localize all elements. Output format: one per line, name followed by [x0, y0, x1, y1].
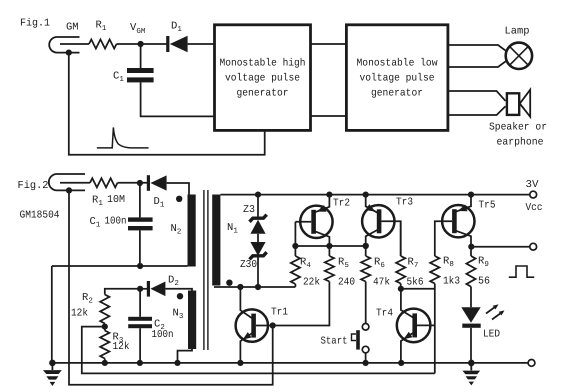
wire to speaker lower: [448, 106, 506, 115]
GM tube fig2: [49, 174, 90, 193]
label LED: [483, 329, 500, 341]
svg-text:56: 56: [478, 276, 490, 288]
resistor R8: [430, 256, 439, 373]
resistor R9: [466, 247, 475, 308]
svg-text:Vcc: Vcc: [526, 202, 543, 214]
transistor Tr1: [236, 287, 273, 363]
resistor R2: [100, 289, 140, 327]
label V_GM: [130, 22, 146, 36]
svg-text:Tr3: Tr3: [396, 197, 413, 209]
junction C2 bottom: [137, 360, 143, 366]
junction Tr5 emitter rail: [468, 192, 474, 198]
resistor R5: [273, 246, 334, 326]
svg-text:earphone: earphone: [497, 137, 544, 149]
pushbutton Start: [352, 324, 369, 363]
label R6 47k: [373, 257, 390, 289]
wire R2R3 tap to Tr4 base rail: [82, 327, 435, 374]
transistor Tr2: [295, 195, 332, 246]
label Fig.1: [20, 18, 50, 30]
transformer winding N1: [212, 195, 220, 286]
pulse waveform fig1: [97, 127, 149, 147]
junction Tr3 emitter rail: [363, 192, 369, 198]
svg-text:Monostable high: Monostable high: [220, 58, 306, 70]
label GM: [66, 22, 79, 34]
label R3 12k: [113, 332, 130, 354]
junction switch rail: [363, 360, 369, 366]
svg-text:240: 240: [338, 277, 355, 289]
label Tr5: [479, 200, 496, 212]
svg-text:47k: 47k: [373, 277, 390, 289]
wire R1 to node: [117, 43, 167, 45]
Vcc rail 3V: [220, 194, 533, 196]
transformer winding N2: [188, 195, 196, 267]
label R1 10M: [92, 194, 125, 208]
ground left: [43, 360, 62, 386]
lamp: [506, 43, 532, 69]
terminal 3V: [530, 191, 537, 198]
svg-text:Z3: Z3: [243, 204, 255, 216]
wire rail to Z3: [257, 195, 259, 217]
wire Z3 to Z30: [257, 234, 259, 242]
junction R4 top: [292, 243, 298, 249]
junction R6 top: [363, 243, 369, 249]
label C2 100n: [152, 319, 174, 342]
wire box1 to box2 upper: [311, 43, 347, 45]
label Tr2: [333, 198, 350, 210]
label C1 fig1: [113, 71, 124, 85]
svg-text:generator: generator: [237, 87, 289, 99]
svg-text:12k: 12k: [71, 308, 88, 320]
wire R1 to node fig2: [118, 182, 148, 184]
label Speaker or: [489, 122, 547, 134]
junction Tr3 collector: [363, 243, 369, 249]
svg-text:Z30: Z30: [240, 259, 257, 271]
ground right: [462, 360, 480, 386]
junction zener bottom: [255, 284, 261, 290]
svg-text:Fig.2: Fig.2: [18, 180, 49, 192]
svg-text:1k3: 1k3: [443, 276, 460, 288]
label R4 22k: [300, 257, 320, 289]
junction N3 bottom: [174, 360, 180, 366]
label R8 1k3: [443, 256, 460, 288]
resistor R7: [396, 221, 405, 288]
svg-text:Speaker or: Speaker or: [489, 122, 547, 134]
capacitor C1 fig1: [127, 44, 214, 116]
svg-text:10M: 10M: [107, 194, 125, 206]
svg-text:GM: GM: [66, 22, 79, 34]
label R5 240: [338, 257, 355, 289]
junction Tr1 emitter rail: [237, 360, 243, 366]
label R1: [96, 20, 107, 34]
capacitor C1 fig2: [128, 183, 153, 266]
wire box1 to box2 lower: [311, 115, 347, 117]
junction Tr1 base: [270, 322, 276, 328]
label D2: [168, 275, 179, 289]
wire D1 to N2: [167, 183, 189, 195]
N3 polarity dot: [177, 293, 183, 299]
wire to lamp lower: [448, 60, 507, 67]
transistor Tr5: [435, 195, 475, 256]
label Lamp: [505, 26, 530, 38]
wire D1 to box: [188, 43, 214, 45]
junction R9 top: [468, 244, 474, 250]
resistor R1 fig2: [90, 178, 118, 187]
wire GM return fig1: [69, 53, 265, 155]
label Z3: [243, 204, 255, 216]
junction R3 bottom: [102, 360, 108, 366]
svg-text:12k: 12k: [113, 341, 130, 353]
transistor Tr3: [362, 195, 401, 256]
svg-text:Fig.1: Fig.1: [20, 18, 50, 30]
wire N2 bottom to ground: [52, 266, 188, 363]
label Tr1: [271, 307, 288, 319]
label R9 56: [478, 256, 490, 288]
junction Tr4 emitter rail: [398, 360, 404, 366]
svg-text:voltage pulse: voltage pulse: [360, 73, 435, 85]
label N1: [227, 222, 238, 236]
label D1 fig1: [171, 21, 182, 35]
monostable high voltage pulse generator box: [215, 25, 311, 131]
label Tr4: [376, 308, 393, 320]
square pulse symbol: [509, 266, 534, 277]
zener Z30: [250, 242, 267, 259]
label N2: [171, 223, 182, 237]
svg-text:LED: LED: [483, 329, 500, 341]
junction Tr1 collector: [237, 284, 243, 290]
wire N3 to ground rail: [178, 348, 193, 363]
svg-text:generator: generator: [371, 87, 423, 99]
wire N1 bottom: [214, 286, 295, 288]
resistor R3: [100, 327, 109, 363]
svg-text:voltage pulse: voltage pulse: [225, 73, 300, 85]
wire Tr5 collector out: [471, 246, 533, 248]
svg-text:Tr2: Tr2: [333, 198, 350, 210]
GM tube: [49, 37, 89, 56]
svg-text:100n: 100n: [105, 216, 127, 228]
label Start: [321, 336, 348, 348]
svg-text:Start: Start: [321, 336, 348, 348]
zener Z3: [250, 215, 267, 234]
junction C1-N2wire: [137, 263, 143, 269]
junction R7 bottom: [398, 286, 404, 292]
N2 polarity dot: [176, 196, 182, 202]
svg-text:Tr5: Tr5: [479, 200, 496, 212]
diode D2: [140, 281, 192, 297]
terminal output: [530, 243, 537, 250]
svg-text:3V: 3V: [526, 179, 540, 191]
label Z30: [240, 259, 257, 271]
ground rail: [52, 362, 531, 364]
junction R5 top: [326, 243, 332, 249]
label R7 5k6: [407, 257, 424, 289]
svg-text:Monostable low: Monostable low: [357, 58, 439, 70]
wire to speaker upper: [448, 91, 506, 101]
LED: [461, 304, 504, 363]
diode D1 fig2: [147, 175, 167, 191]
terminal ground rail right: [528, 360, 535, 367]
transistor Tr4: [397, 289, 435, 363]
label GM18504: [20, 210, 60, 222]
transformer core: [204, 190, 208, 350]
junction D2 node: [137, 286, 143, 292]
resistor R4: [291, 246, 300, 287]
speaker: [507, 90, 530, 117]
svg-text:Lamp: Lamp: [505, 26, 530, 38]
wire GM cathode to Tr1 base: [69, 190, 273, 384]
junction R2 R3: [102, 324, 108, 330]
label earphone: [497, 137, 544, 149]
svg-text:GM18504: GM18504: [20, 210, 60, 222]
monostable low voltage pulse generator box: [346, 25, 448, 131]
svg-text:Tr1: Tr1: [271, 307, 288, 319]
junction Tr2 emitter rail: [326, 192, 332, 198]
transformer winding N3: [188, 291, 196, 350]
svg-text:5k6: 5k6: [407, 277, 424, 289]
resistor R1 fig1: [89, 39, 117, 48]
label 3V: [526, 179, 540, 191]
label R2 12k: [71, 292, 93, 320]
label Fig.2: [18, 180, 49, 192]
label C1 100n: [90, 216, 127, 230]
capacitor C2: [128, 289, 152, 363]
resistor R6: [361, 246, 370, 324]
diode D1 fig1: [166, 36, 187, 52]
N1 polarity dot: [226, 280, 232, 286]
wire Z30 to N1 bottom: [257, 258, 259, 288]
wire to lamp upper: [448, 45, 507, 52]
label Tr3: [396, 197, 413, 209]
label D1 fig2: [154, 196, 165, 210]
wire R7-R8 bottom: [401, 288, 435, 290]
label Vcc: [526, 202, 543, 214]
wire Tr2 base rail: [295, 245, 365, 247]
svg-text:100n: 100n: [152, 329, 174, 341]
svg-text:22k: 22k: [303, 277, 320, 289]
node V_GM: [138, 41, 144, 47]
label N3: [173, 308, 184, 322]
node C1 D1: [137, 180, 143, 186]
junction zener top: [255, 192, 261, 198]
svg-text:Tr4: Tr4: [376, 308, 393, 320]
